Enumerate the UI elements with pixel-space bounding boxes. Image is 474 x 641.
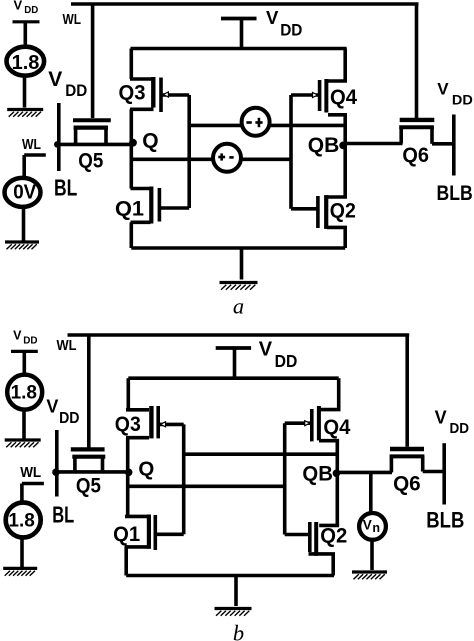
svg-text:DD: DD [23,335,37,346]
svg-text:DD: DD [59,410,79,427]
svg-text:DD: DD [450,420,470,437]
svg-text:BLB: BLB [437,182,473,205]
svg-text:Q1: Q1 [113,523,140,546]
svg-text:DD: DD [280,20,302,39]
svg-text:V: V [13,329,22,343]
svg-text:DD: DD [65,81,87,100]
svg-text:Q: Q [142,129,158,152]
svg-text:V: V [437,79,449,98]
svg-text:a: a [233,294,244,319]
svg-text:Q4: Q4 [323,416,350,439]
svg-text:WL: WL [20,465,41,481]
svg-text:Q3: Q3 [115,413,141,436]
svg-text:Q1: Q1 [115,198,144,221]
svg-text:BL: BL [54,175,77,201]
svg-text:QB: QB [308,134,340,157]
svg-text:V: V [46,397,58,417]
svg-text:V: V [259,339,273,361]
svg-text:Q: Q [138,458,154,481]
svg-text:Q2: Q2 [330,199,356,222]
svg-text:V: V [48,68,62,91]
svg-text:DD: DD [452,92,473,108]
svg-text:V: V [266,7,279,28]
svg-text:V: V [14,0,23,12]
svg-text:WL: WL [22,137,41,153]
svg-text:Q5: Q5 [78,149,103,172]
svg-text:Q4: Q4 [330,86,357,109]
svg-text:b: b [233,621,244,641]
svg-text:V: V [363,517,372,532]
svg-text:Q3: Q3 [119,81,146,104]
svg-text:DD: DD [275,351,298,371]
svg-text:0V: 0V [13,182,37,204]
svg-text:Q2: Q2 [320,525,347,548]
svg-text:1.8: 1.8 [11,382,37,403]
svg-text:BLB: BLB [426,508,464,533]
svg-text:1.8: 1.8 [8,510,34,531]
svg-text:Q5: Q5 [76,475,101,498]
svg-text:n: n [372,521,380,535]
svg-text:WL: WL [63,12,82,28]
svg-text:DD: DD [24,5,38,16]
svg-text:1.8: 1.8 [12,52,40,74]
svg-text:QB: QB [302,463,333,486]
svg-text:Q6: Q6 [402,144,429,167]
svg-text:Q6: Q6 [393,472,421,495]
svg-text:BL: BL [52,501,74,527]
svg-text:V: V [435,408,447,428]
svg-text:WL: WL [57,338,77,354]
